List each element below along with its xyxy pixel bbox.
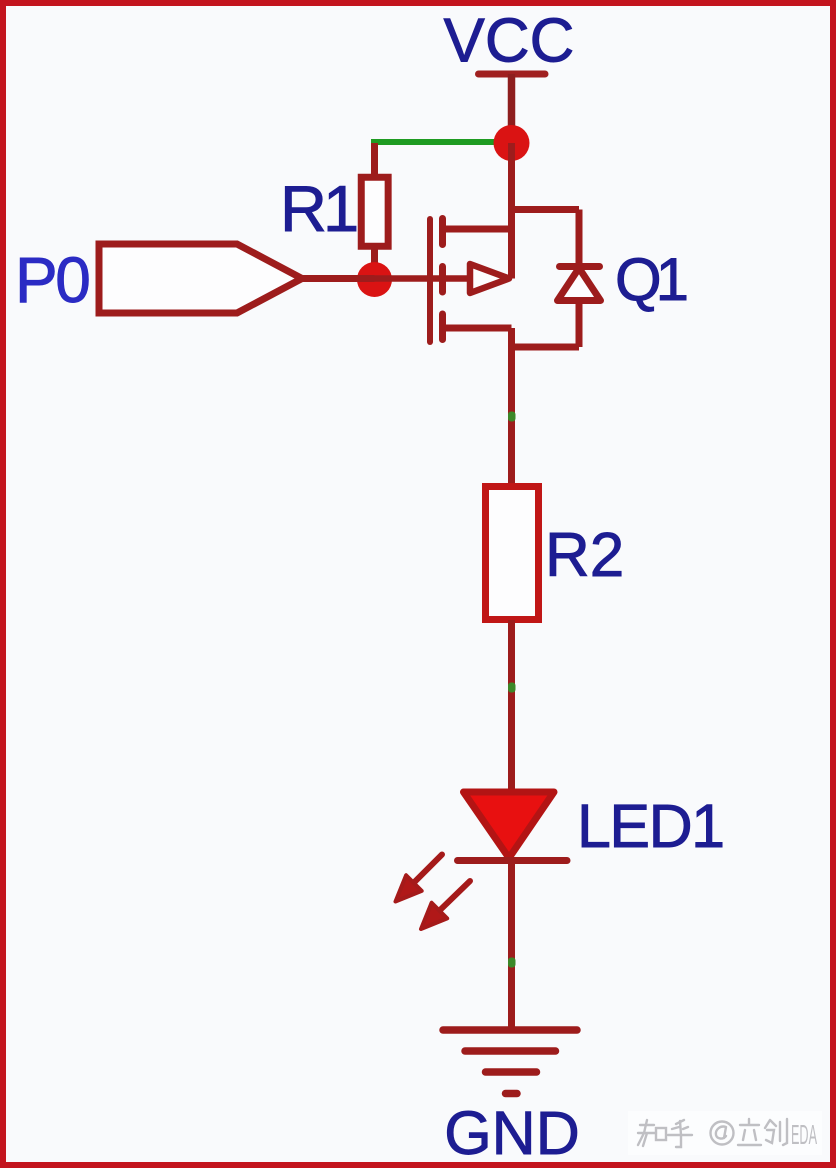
svg-text:Q1: Q1	[615, 246, 687, 313]
wire joint marker 1	[508, 412, 516, 422]
wire R2 to LED1	[508, 620, 515, 793]
Q1 drain down stub	[508, 328, 515, 350]
wire joint marker 3	[508, 958, 516, 968]
LED1 light arrow 1	[396, 855, 443, 902]
Q1 bottom right branch	[512, 344, 580, 351]
svg-text:P0: P0	[15, 244, 89, 316]
wire R1 bottom	[371, 246, 378, 281]
svg-text:R1: R1	[280, 172, 356, 245]
Q1 body diode top lead	[576, 210, 583, 268]
svg-text:EDA: EDA	[791, 1119, 817, 1150]
Q1 drain horizontal	[443, 226, 512, 233]
Q1 gate bar	[427, 219, 433, 342]
Q1 source horizontal	[443, 325, 512, 332]
ground	[443, 1030, 577, 1094]
LED1 light arrow 2	[421, 881, 470, 929]
Q1 gate wire	[375, 275, 472, 282]
Q1 body diode bottom lead	[576, 301, 583, 348]
LED LED1	[396, 792, 568, 929]
svg-text:VCC: VCC	[444, 7, 575, 76]
Q1 channel middle segment	[439, 267, 446, 293]
wire green gate-pullup	[371, 139, 500, 145]
Q1 channel top segment	[439, 219, 446, 245]
svg-text:GND: GND	[444, 1099, 580, 1167]
Q1 body diode cathode bar	[560, 263, 600, 270]
wire LED1 to ground	[508, 861, 515, 1031]
resistor R2	[486, 487, 539, 620]
at sign	[711, 1122, 734, 1145]
char li	[738, 1119, 761, 1145]
Q1 body arrow	[470, 264, 509, 293]
watermark	[628, 1111, 822, 1155]
Q1 channel bottom segment	[439, 314, 446, 340]
junction dot VCC node	[494, 125, 530, 161]
char chuang	[765, 1119, 787, 1145]
Q1 top right branch	[512, 206, 580, 213]
svg-text:LED1: LED1	[577, 792, 724, 860]
power symbol VCC bar	[479, 71, 546, 78]
wire joint marker 2	[508, 683, 516, 693]
wire VCC stub	[508, 74, 516, 143]
Q1 body diode triangle	[558, 268, 601, 301]
wire Q1 to R2	[508, 347, 515, 486]
svg-text:R2: R2	[545, 521, 624, 590]
port P0	[99, 244, 302, 313]
Q1 source-body vertical	[508, 143, 515, 279]
junction dot gate node	[357, 262, 392, 297]
wire R1 top	[371, 143, 378, 177]
wire P0 to gate	[302, 275, 375, 282]
LED1 cathode bar	[458, 857, 568, 864]
LED1 triangle	[464, 792, 555, 858]
char zhi	[638, 1120, 656, 1146]
transistor Q1	[375, 143, 601, 350]
resistor R1	[361, 177, 388, 246]
char hu	[668, 1120, 692, 1147]
